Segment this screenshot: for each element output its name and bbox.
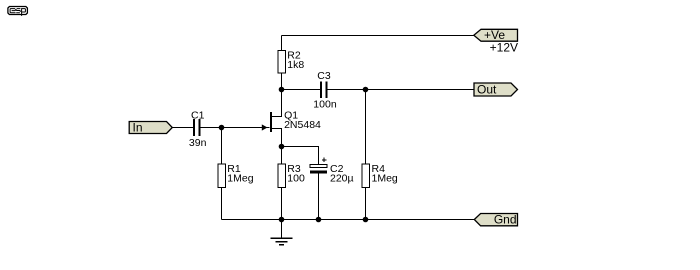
node gate junction — [219, 125, 225, 131]
node ground junction C2 — [316, 217, 322, 223]
ESP logo — [8, 7, 28, 16]
node drain junction — [279, 87, 285, 93]
label R3 100 — [287, 163, 305, 185]
resistor R4 — [362, 164, 370, 188]
node source junction — [279, 144, 285, 150]
svg-text:Out: Out — [477, 83, 497, 97]
wire R1 top stub — [221, 128, 223, 165]
label Q1 2N5484 — [284, 110, 321, 131]
node ground junction R3 — [279, 217, 285, 223]
resistor R2 — [278, 51, 286, 74]
wire R1 bottom stub — [221, 188, 223, 220]
wire source node to C2 — [282, 147, 319, 166]
svg-text:1Meg: 1Meg — [372, 173, 398, 185]
wire R3 bottom stub — [281, 188, 283, 220]
label R2 1k8 — [287, 50, 304, 71]
svg-text:C3: C3 — [317, 70, 331, 82]
svg-text:1Meg: 1Meg — [227, 173, 253, 185]
label C2 220u — [330, 163, 354, 185]
wire R3 top stub — [281, 147, 283, 165]
label C3 100n — [313, 70, 337, 111]
wire R4 top stub — [365, 90, 367, 165]
svg-text:Gnd: Gnd — [494, 212, 517, 226]
ground tag Gnd — [474, 212, 517, 226]
label R1 1Meg — [227, 163, 253, 185]
svg-text:100: 100 — [287, 173, 305, 185]
power tag +Ve — [474, 28, 518, 42]
wire R2 top stub — [281, 36, 283, 51]
wire C3 to Out — [328, 89, 474, 91]
svg-text:100n: 100n — [313, 99, 337, 111]
capacitor C1 — [193, 119, 200, 136]
capacitor C2 — [310, 158, 327, 174]
svg-text:1k8: 1k8 — [287, 59, 304, 71]
output tag Out — [474, 83, 518, 97]
wire drain rail to C3 — [282, 89, 321, 91]
label R4 1Meg — [372, 163, 398, 185]
svg-text:2N5484: 2N5484 — [284, 119, 321, 131]
ground symbol — [271, 220, 293, 245]
label C1 39n — [189, 109, 207, 149]
wire C2 bottom stub — [318, 172, 320, 219]
input tag In — [129, 121, 172, 135]
wire R2 bottom stub — [281, 73, 283, 90]
svg-text:In: In — [133, 121, 143, 135]
capacitor C3 — [320, 82, 327, 99]
node ground junction R4 — [363, 217, 369, 223]
resistor R3 — [278, 164, 286, 188]
resistor R1 — [218, 164, 226, 188]
svg-text:39n: 39n — [189, 137, 207, 149]
wire R4 bottom stub — [365, 188, 367, 220]
wire In to C1 — [172, 127, 193, 129]
svg-text:220µ: 220µ — [330, 173, 354, 185]
node output junction — [363, 87, 369, 93]
wire gate lead — [222, 127, 270, 129]
wire ground rail — [222, 219, 475, 221]
svg-text:+12V: +12V — [490, 41, 518, 55]
transistor Q1 — [262, 90, 282, 147]
wire C1 to gate node — [201, 127, 222, 129]
wire +V top rail — [282, 35, 475, 37]
svg-text:C1: C1 — [191, 109, 205, 121]
